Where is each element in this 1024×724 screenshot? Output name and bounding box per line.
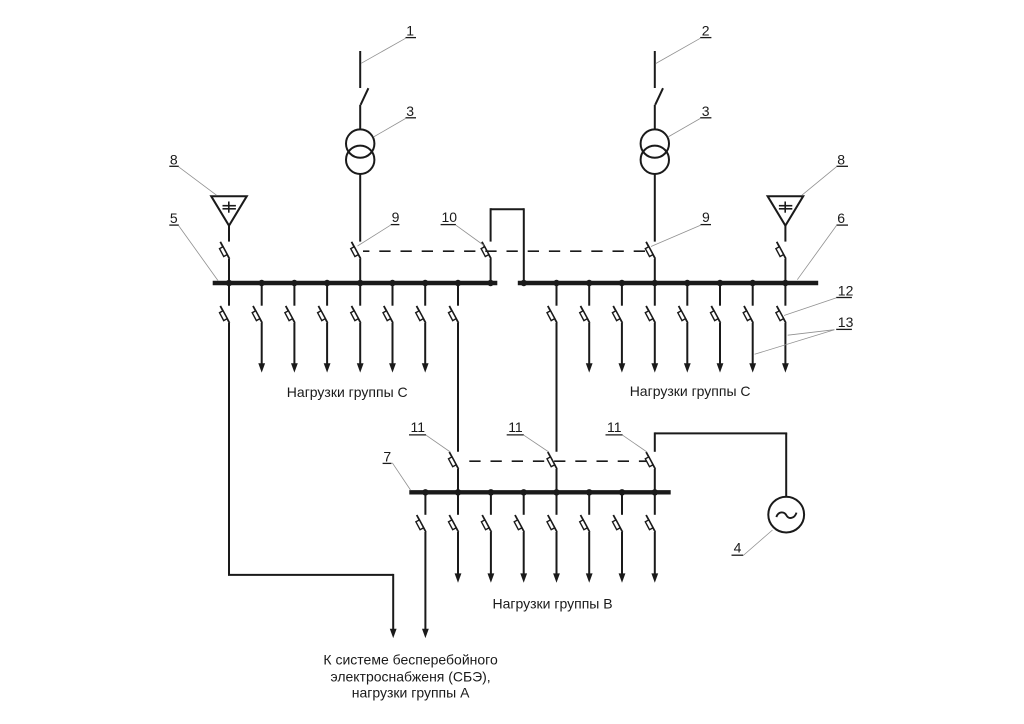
svg-text:11: 11 [607,419,622,435]
junction dots on right bus [521,280,789,286]
disconnector on line 1 [361,88,369,105]
group A feeder: wire from standby bus [424,492,426,515]
wire: disconnector to transformer T1 [359,105,361,130]
svg-text:электроснабженя (СБЭ),: электроснабженя (СБЭ), [330,668,490,684]
group C feeder R1: wire and arrow [586,323,593,373]
group B feeder 5: switch-fuse [580,515,590,532]
changeover switch-fuse 11 [449,452,459,469]
label 5 with leader [169,210,218,281]
svg-text:2: 2 [702,23,710,39]
switch-fuse of battery right [776,242,786,259]
label 3 (left) with leader [374,103,417,137]
group C feeder R6: wire from right bus [752,283,754,306]
wire: generator up and left to switch 11-3 [655,432,787,496]
label 7 with leader [383,448,411,490]
incoming line 1: upper wire [359,51,361,88]
group C feeder R3: wire from right bus [654,283,656,306]
svg-text:9: 9 [702,209,710,225]
standby bus (label 7) [409,490,670,494]
group C feeder R4: wire and arrow [684,323,691,373]
wire: switch 9 to left bus [359,259,361,283]
group C feeder L5: wire and arrow [389,323,396,373]
label 3 (right) with leader [668,103,711,137]
group C feeder L1: wire from left bus [261,283,263,306]
group C feeder L4: wire and arrow [357,323,364,373]
text: group C loads (right) [630,383,751,399]
group B feeder 7: wire from standby bus [654,492,656,515]
changeover switch-fuse 11 [547,452,557,469]
svg-text:Нагрузки группы С: Нагрузки группы С [287,384,408,400]
storage battery (label 8, right): triangle symbol [768,196,804,226]
svg-text:5: 5 [170,210,178,226]
group C feeder R3: switch-fuse [645,306,655,323]
transformer T1 (label 3) two windings [346,129,374,174]
label 8 (right) with leader [802,151,848,195]
group C feeder L2: wire from left bus [293,283,295,306]
UPS feeder: long wire down, corner right, down to arrow [228,323,397,638]
switch-fuse 9 (left) [351,242,361,259]
group C feeder R6: switch-fuse [743,306,753,323]
group C feeder L1: switch-fuse [252,306,262,323]
group B feeder 7: switch-fuse [645,515,655,532]
storage battery (label 8, left): triangle symbol [211,196,247,226]
group C feeder L2: wire and arrow [291,323,298,373]
label 12 with leader [784,282,854,315]
group C feeder R7: switch-fuse [776,306,786,323]
feeder from right bus to standby bus: long wire [556,323,558,452]
group B feeder 4: switch-fuse [547,515,557,532]
group C feeder R4: switch-fuse [678,306,688,323]
UPS feeder: wire from left bus [228,283,230,306]
group C feeder L5: wire from left bus [392,283,394,306]
group B feeder 3: wire and arrow [520,532,527,583]
group C feeder L3: wire from left bus [326,283,328,306]
label 13 with two leaders [755,314,854,354]
svg-text:нагрузки группы А: нагрузки группы А [352,685,470,701]
label 1 with leader [361,23,416,64]
left main bus (label 5) [213,281,498,285]
wire: switch 11 to standby bus [654,469,656,492]
svg-text:3: 3 [702,103,710,119]
group C feeder R4: wire from right bus [686,283,688,306]
feeder from right bus to standby bus: switch-fuse [547,306,557,323]
label 9 (left) with leader [358,209,400,246]
group C feeder R5: wire and arrow [717,323,724,373]
group C feeder R6: wire and arrow [749,323,756,373]
group A feeder: long wire and arrow [422,532,429,638]
group B feeder 2: switch-fuse [481,515,491,532]
svg-text:11: 11 [508,419,523,435]
svg-text:К системе бесперебойного: К системе бесперебойного [323,652,498,668]
dashed interlock link between switches 9-10-9 [363,250,651,252]
group C feeder R2: wire and arrow [619,323,626,373]
wire: switch 11 to standby bus [457,469,459,492]
label 10 with leader [441,209,484,245]
wire: transformer T1 to switch 9 [359,174,361,242]
svg-text:9: 9 [392,209,400,225]
group B feeder 6: wire from standby bus [621,492,623,515]
group B feeder 4: wire from standby bus [556,492,558,515]
svg-text:12: 12 [838,282,854,298]
group C feeder L1: wire and arrow [258,323,265,373]
bus-tie jumper wire (over the gap) [491,208,524,283]
right main bus (label 6) [518,281,818,285]
disconnector on line 2 [655,88,663,105]
text: group B loads [493,596,613,612]
wire: battery switch to left bus [228,259,230,283]
changeover switch-fuse 11 [645,452,655,469]
feeder from right bus to standby bus: wire [556,283,558,306]
group B feeder 5: wire and arrow [586,532,593,583]
group B feeder 4: wire and arrow [553,532,560,583]
group B feeder 7: wire and arrow [651,532,658,583]
group B feeder 2: wire from standby bus [490,492,492,515]
group B feeder 1: wire and arrow [455,532,462,583]
group B feeder 2: wire and arrow [488,532,495,583]
svg-text:13: 13 [838,314,854,330]
label 8 (left) with leader [169,151,216,195]
feeder from left bus to standby bus: wire [457,283,459,306]
svg-text:8: 8 [837,151,845,167]
bus-tie switch-fuse 10 [481,242,491,259]
diesel generator G (label 4): circle with sine [768,497,804,533]
group C feeder R5: switch-fuse [711,306,721,323]
label 11 #1 with leader [409,419,450,452]
group C feeder L3: wire and arrow [324,323,331,373]
svg-text:6: 6 [837,210,845,226]
group B feeder 5: wire from standby bus [588,492,590,515]
junction dots on left bus [226,280,494,286]
wire: battery left to its switch [228,226,230,242]
group C feeder R1: wire from right bus [588,283,590,306]
group B feeder 3: wire from standby bus [523,492,525,515]
wire: tie switch to left bus [490,259,492,283]
svg-text:11: 11 [411,419,426,435]
incoming line 2: upper wire [654,51,656,88]
label 4 with leader [732,530,773,556]
svg-text:1: 1 [406,23,414,39]
group C feeder L4: switch-fuse [351,306,361,323]
group B feeder 6: switch-fuse [613,515,623,532]
label 11 #2 with leader [507,419,549,452]
text: group C loads (left) [287,384,408,400]
group B feeder 3: switch-fuse [514,515,524,532]
group C feeder L6: switch-fuse [416,306,426,323]
dashed interlock link between switches 11 [460,460,652,462]
feeder from left bus to standby bus: switch-fuse [449,306,459,323]
group C feeder L5: switch-fuse [383,306,393,323]
UPS feeder: switch-fuse [220,306,230,323]
group C feeder L3: switch-fuse [318,306,328,323]
wire: battery switch to right bus [784,259,786,283]
group C feeder L6: wire and arrow [422,323,429,373]
wire: switch 9 to right bus [654,259,656,283]
svg-text:Нагрузки группы В: Нагрузки группы В [493,596,613,612]
label 11 #3 with leader [606,419,648,452]
group A feeder: switch-fuse [416,515,426,532]
label 2 with leader [656,23,712,64]
group B feeder 1: wire from standby bus [457,492,459,515]
label 6 with leader [797,210,848,280]
svg-text:3: 3 [406,103,414,119]
switch-fuse of battery left [220,242,230,259]
group B feeder 1: switch-fuse [449,515,459,532]
feeder from left bus to standby bus: long wire [457,323,459,452]
svg-text:Нагрузки группы С: Нагрузки группы С [630,383,751,399]
label 9 (right) with leader [651,209,711,246]
group B feeder 6: wire and arrow [619,532,626,583]
group C feeder R1: switch-fuse [580,306,590,323]
switch-fuse 9 (right) [645,242,655,259]
svg-text:10: 10 [442,209,458,225]
group C feeder R7: wire from right bus [784,283,786,306]
group C feeder L6: wire from left bus [424,283,426,306]
group C feeder R3: wire and arrow [651,323,658,373]
group C feeder R2: switch-fuse [612,306,622,323]
wire: switch 11 to standby bus [556,469,558,492]
wire: disconnector to transformer T2 [654,105,656,130]
junction dots on standby bus [422,489,658,495]
group C feeder R7: wire and arrow [782,323,789,373]
wire: transformer T2 to switch 9 [654,174,656,242]
text: to UPS system, group A loads [323,652,498,701]
svg-text:7: 7 [383,448,391,464]
svg-text:8: 8 [170,151,178,167]
transformer T2 (label 3) two windings [641,129,669,174]
svg-text:4: 4 [734,540,742,556]
group C feeder R5: wire from right bus [719,283,721,306]
wire: battery right to its switch [784,226,786,242]
group C feeder L2: switch-fuse [285,306,295,323]
group C feeder L4: wire from left bus [359,283,361,306]
group C feeder R2: wire from right bus [621,283,623,306]
